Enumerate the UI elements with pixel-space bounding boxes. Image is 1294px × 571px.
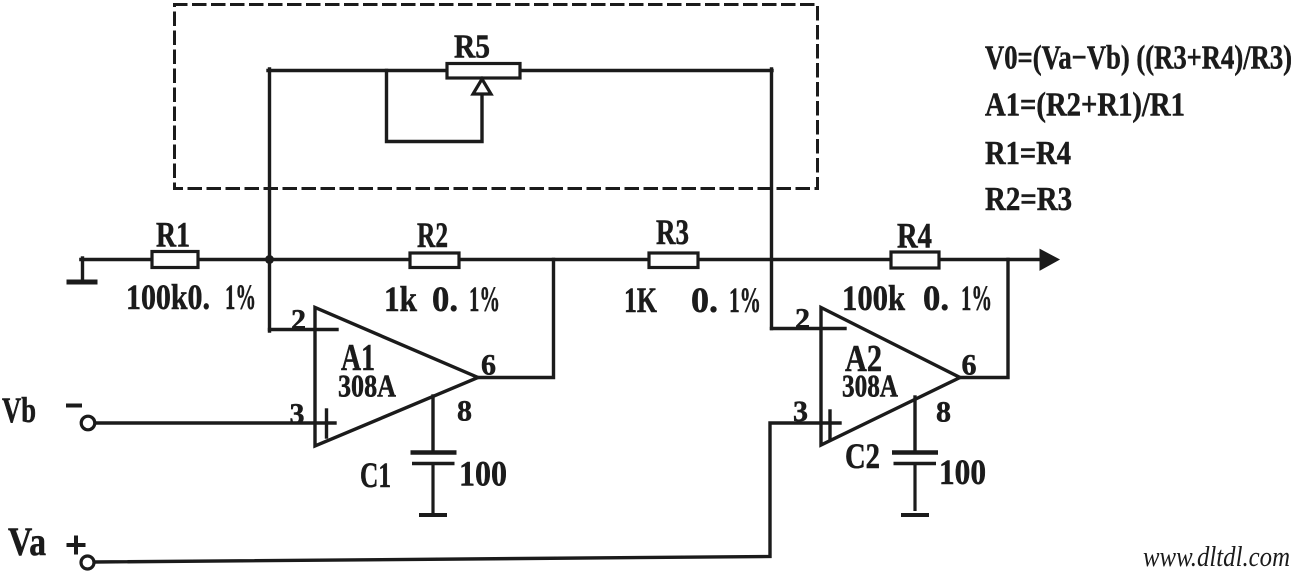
wire: A1 pin 2 stub (270, 328, 338, 331)
svg-text:308A: 308A (842, 368, 898, 404)
wire: A1 output to bus (478, 260, 554, 378)
wire: Vb input to A1 pin 3 (95, 421, 335, 424)
wire: R5 wiper tap loop (387, 71, 483, 142)
svg-text:1K: 1K (624, 280, 657, 320)
resistor R3 body (649, 253, 698, 268)
plus marker at A1 pin 3 (325, 410, 328, 437)
wire: ground drop at far left (81, 258, 84, 280)
wire: main horizontal bus (81, 258, 1042, 262)
terminal Vb circle (81, 416, 95, 430)
ground bar (69, 280, 95, 285)
dashed enclosure box (175, 5, 818, 189)
svg-text:2: 2 (795, 303, 810, 336)
svg-text:308A: 308A (338, 368, 396, 404)
svg-text:2: 2 (291, 304, 306, 337)
plus marker at Va (67, 536, 86, 555)
capacitor C2 (892, 453, 938, 516)
svg-text:6: 6 (481, 349, 496, 382)
capacitor C1 (411, 453, 457, 516)
svg-text:100k: 100k (842, 278, 905, 318)
svg-text:1%: 1% (961, 278, 992, 318)
svg-text:8: 8 (936, 396, 951, 429)
resistor R4 body (891, 252, 939, 268)
svg-text:C1: C1 (360, 455, 391, 495)
wire: A2 output to bus (960, 260, 1008, 378)
svg-text:R2: R2 (417, 215, 448, 255)
wire: R5 right wire (520, 69, 772, 72)
svg-text:0.: 0. (432, 279, 458, 319)
op-amp A1 (315, 308, 478, 447)
op-amp A2 (821, 308, 960, 446)
svg-text:0.: 0. (923, 278, 949, 318)
svg-text:100: 100 (939, 452, 986, 492)
minus marker at Vb (66, 404, 82, 408)
plus marker at A2 pin 3 (828, 411, 831, 438)
wire: left vertical from R5 wire down to A1 pin 2 (268, 69, 271, 331)
svg-text:6: 6 (962, 349, 977, 382)
svg-text:A1=(R2+R1)/R1: A1=(R2+R1)/R1 (985, 87, 1185, 124)
svg-text:R2=R3: R2=R3 (985, 181, 1072, 218)
R5 wiper arrow (473, 79, 491, 94)
wire: A2 pin 8 drop (913, 397, 916, 452)
svg-text:8: 8 (457, 395, 472, 428)
svg-text:C2: C2 (845, 436, 880, 476)
svg-text:V0=(Va−Vb) ((R3+R4)/R3): V0=(Va−Vb) ((R3+R4)/R3) (985, 40, 1292, 77)
svg-text:1%: 1% (729, 280, 761, 320)
svg-text:Vb: Vb (2, 390, 36, 430)
svg-text:1k: 1k (384, 279, 417, 319)
wire: A1 pin 8 drop (431, 396, 434, 452)
svg-text:100: 100 (459, 454, 507, 494)
wire: right vertical from R5 down to A2 pin 2 (770, 69, 773, 329)
wire: A2 pin 2 stub (772, 327, 846, 330)
terminal Va circle (81, 556, 94, 569)
output arrowhead (1040, 250, 1059, 271)
svg-text:1%: 1% (225, 277, 256, 317)
potentiometer R5 body (447, 64, 520, 79)
svg-text:3: 3 (793, 395, 808, 428)
svg-text:0.: 0. (691, 280, 718, 320)
junction node at R1/feedback (265, 255, 274, 264)
svg-text:1%: 1% (469, 279, 500, 319)
svg-text:R5: R5 (454, 29, 490, 66)
wire: R5 left wire (268, 69, 447, 72)
resistor R1 body (152, 252, 198, 268)
svg-text:3: 3 (290, 398, 305, 431)
svg-text:Va: Va (8, 519, 46, 564)
svg-text:R1: R1 (156, 215, 190, 255)
svg-text:R1=R4: R1=R4 (985, 135, 1071, 172)
resistor R2 body (410, 253, 459, 268)
svg-text:R4: R4 (897, 216, 932, 256)
svg-text:R3: R3 (656, 212, 689, 252)
svg-text:www.dltdl.com: www.dltdl.com (1143, 541, 1290, 571)
svg-text:100k0.: 100k0. (126, 277, 210, 317)
wire: Va long wire to A2 pin 3 (95, 423, 840, 562)
